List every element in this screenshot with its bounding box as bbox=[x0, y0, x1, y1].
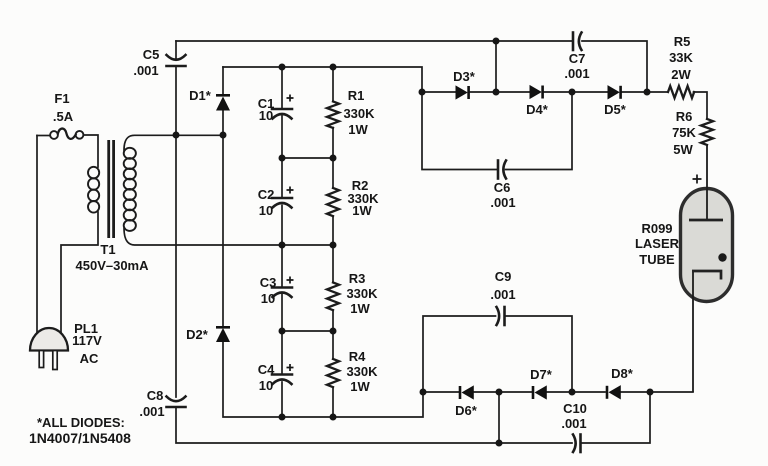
tube cathode electrode bbox=[692, 271, 721, 280]
resistor R1 bbox=[327, 102, 339, 128]
capacitor C5 bbox=[167, 55, 186, 66]
capacitor C4 bbox=[272, 375, 292, 385]
capacitor C7 bbox=[573, 33, 582, 51]
svg-text:1W: 1W bbox=[350, 379, 370, 394]
plus signs bbox=[287, 95, 702, 372]
wire R column segments bbox=[332, 67, 334, 102]
wire D2 lead bottom / node row 5 bbox=[223, 342, 423, 418]
svg-text:1W: 1W bbox=[348, 122, 368, 137]
transformer T1 core bbox=[107, 140, 115, 238]
svg-text:C10: C10 bbox=[563, 401, 587, 416]
wire D1 column / bus y67 bbox=[223, 67, 422, 92]
svg-text:1W: 1W bbox=[350, 301, 370, 316]
svg-text:D4*: D4* bbox=[526, 102, 549, 117]
wire D8 node to tube bbox=[650, 391, 693, 393]
svg-text:AC: AC bbox=[80, 351, 99, 366]
svg-text:D2*: D2* bbox=[186, 327, 209, 342]
wire fuse row bbox=[37, 135, 50, 137]
svg-text:C7: C7 bbox=[569, 51, 586, 66]
svg-text:D5*: D5* bbox=[604, 102, 627, 117]
capacitor C10 bbox=[573, 435, 581, 453]
diode D7 bbox=[532, 386, 547, 399]
svg-text:R6: R6 bbox=[676, 109, 693, 124]
wire node row B bbox=[282, 157, 333, 159]
svg-text:450V–30mA: 450V–30mA bbox=[76, 258, 150, 273]
wire cathode lead bbox=[692, 272, 694, 392]
svg-text:2W: 2W bbox=[671, 67, 691, 82]
capacitor C8 bbox=[167, 397, 186, 408]
wire C column segments bbox=[281, 67, 283, 108]
svg-text:C5: C5 bbox=[143, 47, 160, 62]
svg-text:75K: 75K bbox=[672, 125, 696, 140]
svg-text:1W: 1W bbox=[352, 203, 372, 218]
svg-text:D3*: D3* bbox=[453, 69, 476, 84]
wire C9 loop bbox=[423, 316, 496, 392]
svg-text:C8: C8 bbox=[147, 388, 164, 403]
svg-text:117V: 117V bbox=[72, 333, 102, 348]
diode D6 bbox=[459, 386, 474, 399]
wire D6 row y392 bbox=[423, 391, 459, 393]
wire D1 leads bbox=[222, 67, 224, 94]
svg-text:330K: 330K bbox=[346, 364, 378, 379]
diode D4 bbox=[530, 86, 544, 99]
svg-text:.001: .001 bbox=[561, 416, 586, 431]
capacitor C2 bbox=[272, 198, 292, 208]
svg-text:R099: R099 bbox=[641, 221, 672, 236]
wire C10 node drop bbox=[498, 392, 500, 443]
transformer T1 secondary coil bbox=[124, 148, 136, 231]
svg-text:C2: C2 bbox=[258, 187, 275, 202]
svg-text:C3: C3 bbox=[260, 275, 277, 290]
svg-text:330K: 330K bbox=[343, 106, 375, 121]
svg-text:TUBE: TUBE bbox=[639, 252, 675, 267]
svg-text:.001: .001 bbox=[564, 66, 589, 81]
wire secondary bottom row bbox=[124, 229, 333, 246]
diode D8 bbox=[606, 386, 621, 399]
laser tube R099 bbox=[681, 145, 733, 393]
svg-text:33K: 33K bbox=[669, 50, 693, 65]
svg-text:330K: 330K bbox=[346, 286, 378, 301]
svg-text:10: 10 bbox=[259, 203, 273, 218]
capacitor C9 bbox=[497, 307, 505, 325]
capacitor C3 bbox=[272, 288, 292, 298]
svg-text:C6: C6 bbox=[494, 180, 511, 195]
wire top bus y41 left of C7 bbox=[176, 40, 573, 42]
svg-text:D6*: D6* bbox=[455, 403, 478, 418]
wire primary bottom to plug bbox=[61, 212, 98, 338]
svg-text:.001: .001 bbox=[133, 63, 158, 78]
svg-text:T1: T1 bbox=[100, 242, 115, 257]
wire C7 node drop bbox=[495, 41, 497, 92]
svg-text:*ALL DIODES:: *ALL DIODES: bbox=[37, 415, 125, 430]
diode D3 bbox=[456, 86, 470, 99]
wire C8 to bottom bus bbox=[176, 408, 572, 444]
svg-text:LASER: LASER bbox=[635, 236, 680, 251]
svg-text:.001: .001 bbox=[139, 404, 164, 419]
svg-text:.001: .001 bbox=[490, 287, 515, 302]
svg-text:R3: R3 bbox=[349, 271, 366, 286]
wire C6 loop bbox=[422, 92, 497, 170]
svg-text:10: 10 bbox=[259, 108, 273, 123]
svg-text:.5A: .5A bbox=[53, 109, 74, 124]
svg-text:10: 10 bbox=[259, 378, 273, 393]
svg-text:1N4007/1N5408: 1N4007/1N5408 bbox=[29, 430, 131, 446]
svg-text:D7*: D7* bbox=[530, 367, 553, 382]
svg-text:D1*: D1* bbox=[189, 88, 212, 103]
wire secondary top to D1 column bbox=[124, 135, 223, 150]
wire C5 column bbox=[175, 41, 177, 59]
capacitor C6 bbox=[498, 161, 506, 179]
resistor R3 bbox=[327, 283, 339, 311]
svg-text:R1: R1 bbox=[348, 88, 365, 103]
diode D1 bbox=[216, 94, 230, 110]
wire D3 row y92 bbox=[422, 91, 456, 93]
resistor R2 bbox=[327, 188, 339, 216]
svg-text:C4: C4 bbox=[258, 362, 275, 377]
svg-text:F1: F1 bbox=[54, 91, 69, 106]
resistor R6 bbox=[701, 119, 713, 145]
svg-text:5W: 5W bbox=[673, 142, 693, 157]
wire top bus y41 right of C7 bbox=[582, 41, 647, 92]
resistor R5 bbox=[668, 86, 694, 98]
svg-text:10: 10 bbox=[261, 291, 275, 306]
svg-text:D8*: D8* bbox=[611, 366, 634, 381]
svg-text:C9: C9 bbox=[495, 269, 512, 284]
tube spot bbox=[718, 253, 726, 261]
wire bottom bus right of C10 bbox=[582, 392, 651, 443]
fuse F1 bbox=[50, 129, 83, 139]
wire node row D bbox=[282, 330, 333, 332]
wire left vertical to plug bbox=[36, 136, 38, 339]
svg-text:R4: R4 bbox=[349, 349, 366, 364]
svg-text:R5: R5 bbox=[674, 34, 691, 49]
diode D2 bbox=[216, 326, 230, 342]
svg-text:.001: .001 bbox=[490, 195, 515, 210]
tube anode bar bbox=[689, 219, 723, 222]
plug PL1 bbox=[30, 328, 68, 369]
capacitor C1 bbox=[272, 109, 292, 119]
transformer T1 primary coil bbox=[88, 167, 99, 213]
diode D5 bbox=[608, 86, 622, 99]
resistor R4 bbox=[327, 359, 339, 387]
wire anode lead bbox=[706, 145, 708, 220]
